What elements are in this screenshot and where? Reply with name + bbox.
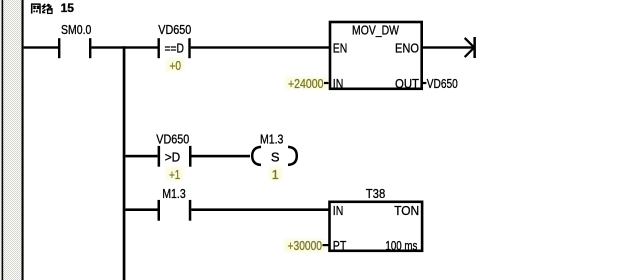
operand value +1 [166,167,184,182]
contact M1.3 [158,186,192,221]
svg-text:S: S [271,149,280,164]
svg-text:OUT: OUT [395,76,419,91]
svg-text:==D: ==D [164,40,184,55]
svg-text:VD650: VD650 [156,132,189,147]
svg-text:T38: T38 [366,186,386,201]
vertical trunk wire [123,46,126,280]
svg-text:100 ms: 100 ms [385,238,417,253]
svg-text:VD650: VD650 [427,76,458,91]
svg-text:MOV_DW: MOV_DW [352,23,400,38]
rung 3 wire: trunk to contact M1.3 [125,208,157,211]
wire compare contact to S coil [192,155,251,158]
wire compare contact to MOV_DW EN [191,46,329,48]
block MOV_DW [330,22,422,91]
wire SM0.0 to compare contact [91,46,157,48]
coil value 1 [269,167,282,182]
rung 2 wire: trunk to compare contact [125,155,157,158]
contact SM0.0 [58,22,91,58]
svg-text:>D: >D [165,149,181,164]
wire ENO to continuation arrow [422,46,474,48]
compare contact ==D VD650 [158,22,192,58]
svg-text:ENO: ENO [395,40,419,55]
svg-text:+1: +1 [169,167,180,182]
left power rail [22,0,24,280]
svg-text:+24000: +24000 [288,76,324,91]
coil S M1.3 [252,132,297,165]
svg-text:M1.3: M1.3 [260,132,284,147]
wire M1.3 to timer T38 IN [191,208,329,211]
svg-text:+30000: +30000 [288,238,323,253]
svg-text:SM0.0: SM0.0 [61,22,91,37]
network title 网 glyph [31,4,41,14]
editor gutter strip [0,0,22,280]
svg-text:TON: TON [394,203,419,218]
svg-text:+0: +0 [169,58,181,73]
svg-text:IN: IN [333,76,344,91]
timer block T38 TON [330,186,423,253]
svg-text:EN: EN [333,40,348,55]
svg-text:M1.3: M1.3 [162,186,186,201]
svg-text:PT: PT [333,238,347,253]
continuation arrow [465,37,476,58]
rung 1 wire: rail to SM0.0 contact [24,46,58,48]
svg-text:IN: IN [333,203,344,218]
compare contact >D VD650 [156,132,191,167]
svg-text:VD650: VD650 [158,22,191,37]
operand value +30000 [284,238,329,253]
output pin tick OUT [422,82,427,84]
svg-text:15: 15 [61,1,75,15]
operand value +24000 [285,76,329,91]
operand value +0 [166,58,184,73]
network title 络 glyph [42,4,52,14]
svg-text:1: 1 [272,167,279,182]
